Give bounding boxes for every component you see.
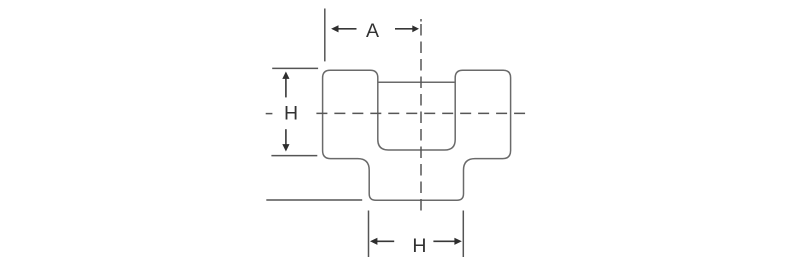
dim H left bottom extension line	[271, 155, 317, 157]
dim A left arrow	[338, 28, 357, 30]
dim H left up arrow	[285, 78, 287, 97]
horizontal centerline left dash	[266, 113, 273, 115]
horizontal centerline	[316, 112, 525, 114]
recess back edge	[378, 81, 455, 83]
svg-text:H: H	[412, 235, 426, 257]
dim H bottom left arrow	[377, 240, 395, 242]
dim A extension line	[324, 9, 326, 62]
dim H left down arrow	[285, 129, 287, 145]
svg-text:A: A	[366, 20, 379, 42]
bottom extension line of part	[266, 199, 362, 201]
dim H bottom right extension line	[462, 211, 464, 258]
dim H bottom right arrow	[433, 240, 455, 242]
dim A right arrow	[395, 28, 413, 30]
dim H left top extension line	[272, 67, 318, 69]
vertical centerline dot	[420, 19, 422, 22]
dim H bottom left extension line	[368, 211, 370, 258]
svg-text:H: H	[284, 102, 298, 124]
part outline	[323, 70, 511, 200]
vertical centerline	[420, 24, 422, 215]
